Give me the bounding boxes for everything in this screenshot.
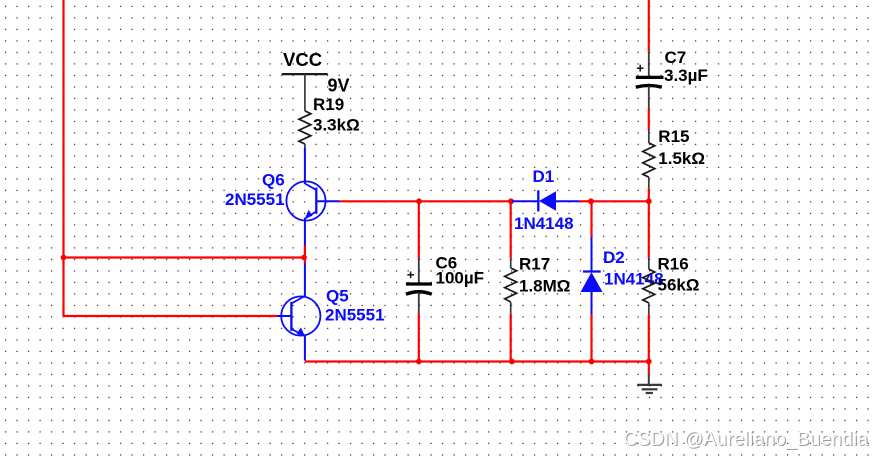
watermark text [624, 429, 870, 451]
capacitor C7 (polarized 3.3uF) [636, 0, 664, 109]
svg-text:2N5551: 2N5551 [325, 306, 385, 325]
node: junction top bus / D2 [588, 198, 594, 204]
label R15 [658, 127, 689, 146]
node: junction bottom bus / D2 [589, 359, 595, 365]
wire: bottom bus y=361.5 [305, 360, 649, 362]
value label 1.5kΩ [658, 149, 705, 168]
svg-text:R16: R16 [658, 254, 689, 273]
node: junction top bus / C6 [416, 198, 422, 204]
svg-text:CSDN @Aureliano_Buendia: CSDN @Aureliano_Buendia [624, 429, 869, 450]
wire: horizontal from left net to Q5 collector node [64, 256, 305, 258]
svg-text:R15: R15 [658, 127, 689, 146]
node: junction on left vertical net [61, 255, 67, 261]
svg-text:D1: D1 [533, 167, 555, 186]
resistor R19 [299, 111, 311, 148]
value label 1N4148 (D2) [604, 270, 664, 289]
power VCC symbol [282, 74, 328, 111]
wire: left vertical net from top edge down [62, 0, 64, 316]
svg-text:1.5kΩ: 1.5kΩ [658, 149, 705, 168]
label Q5 [326, 287, 349, 306]
node: junction bottom bus / C6 [416, 359, 422, 365]
value label 56kΩ [658, 276, 700, 295]
ground [637, 362, 662, 394]
label Q6 [262, 171, 285, 190]
svg-text:C7: C7 [665, 48, 687, 67]
wire: top bus y=201 from Q6 base to D1 [339, 200, 511, 202]
label C7 [665, 48, 687, 67]
resistor R16 [643, 201, 655, 361]
node: junction bottom bus / R17 [509, 359, 515, 365]
svg-text:D2: D2 [603, 248, 625, 267]
value label 1.8MΩ [519, 277, 570, 296]
value label 1N4148 (D1) [514, 214, 574, 233]
value label 100µF [436, 269, 485, 288]
svg-text:R19: R19 [313, 95, 344, 114]
svg-text:R17: R17 [519, 255, 550, 274]
wire: Q6 emitter to node [304, 246, 306, 264]
value label 3.3kΩ [313, 116, 360, 135]
svg-text:VCC: VCC [283, 49, 322, 70]
svg-text:1.8MΩ: 1.8MΩ [519, 277, 570, 296]
wire: horizontal from left net to Q5 base [64, 315, 278, 317]
label R17 [519, 255, 550, 274]
diode D1 (1N4148, pointing left) [512, 190, 580, 211]
svg-text:3.3kΩ: 3.3kΩ [313, 116, 360, 135]
node: junction top bus / R17 [508, 198, 514, 204]
value label 2N5551 (Q6) [225, 190, 285, 209]
label C6 [436, 254, 458, 273]
wire: C7 to R15 [648, 109, 650, 130]
wire: D1 cathode side to D2 node [580, 200, 591, 202]
diode D2 (1N4148, pointing up) [581, 201, 603, 361]
label VCC [283, 49, 322, 70]
svg-text:100µF: 100µF [436, 269, 485, 288]
svg-text:3.3µF: 3.3µF [664, 66, 708, 85]
svg-text:2N5551: 2N5551 [225, 190, 285, 209]
capacitor C6 (polarized 100uF) [406, 201, 432, 361]
label R19 [313, 95, 344, 114]
node: junction top bus / R15-R16 [646, 198, 652, 204]
svg-text:1N4148: 1N4148 [514, 214, 574, 233]
label D2 [603, 248, 625, 267]
transistor Q6 (2N5551, base on right) [286, 148, 339, 246]
wire: top bus D2 node to R15 node [591, 200, 649, 202]
value label 2N5551 (Q5) [325, 306, 385, 325]
node: Q6 emitter / Q5 collector junction [301, 255, 307, 261]
label R16 [658, 254, 689, 273]
value label 3.3µF [664, 66, 708, 85]
resistor R17 [505, 201, 517, 361]
value label 9V [328, 76, 350, 96]
label D1 [533, 167, 555, 186]
node: junction bottom bus / ground [646, 359, 652, 365]
svg-text:Q6: Q6 [262, 171, 285, 190]
svg-text:56kΩ: 56kΩ [658, 276, 700, 295]
transistor Q5 (2N5551, base on left) [277, 264, 320, 361]
svg-text:Q5: Q5 [326, 287, 349, 306]
resistor R15 [643, 130, 655, 201]
svg-text:9V: 9V [328, 76, 350, 96]
